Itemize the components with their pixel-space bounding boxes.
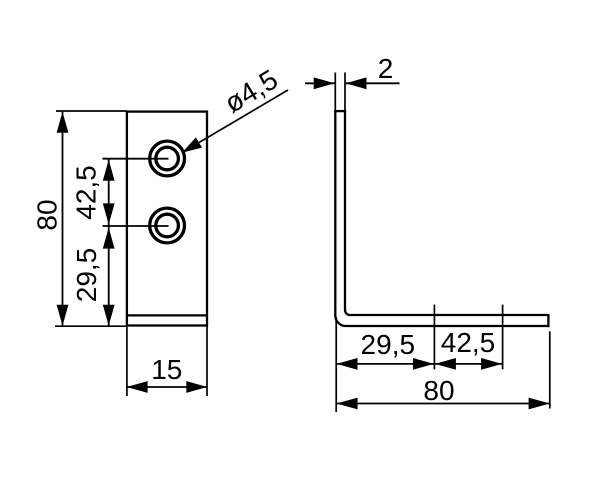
dimension 80 (side) arrow left (337, 398, 358, 410)
dimension 29,5 (side) line (337, 363, 435, 365)
leader arrowhead (182, 137, 202, 152)
hole H1 inner circle (156, 147, 179, 170)
dimension 80 (side) arrow right (529, 398, 550, 410)
tick extension line at 29,5 (side) (433, 305, 435, 370)
dimension 42,5 (side) arrow right (481, 358, 502, 370)
front view: bend tangent line (127, 314, 207, 316)
dimension 80 (side) line (337, 403, 550, 405)
dimension 2 line right part (346, 82, 400, 84)
side view: L profile outer contour (335, 111, 548, 326)
side view: L profile inner contour (345, 111, 548, 315)
extension line top (80 dim) (56, 110, 127, 112)
svg-text:15: 15 (151, 354, 182, 385)
hole H2 outer circle (150, 208, 185, 243)
dimension 15 arrow left (127, 381, 148, 393)
extension line right (80 side dim) (549, 331, 551, 408)
svg-text:80: 80 (423, 375, 454, 406)
dimension 2 arrow pointing left (346, 77, 367, 89)
hole H1 outer circle (150, 141, 185, 176)
dimension 29,5 (front) line (108, 226, 110, 326)
svg-text:2: 2 (378, 53, 394, 84)
hole H2 center line (103, 225, 169, 227)
extension line left (side bottom dims) (335, 317, 337, 412)
dimension 2 line left part (305, 82, 335, 84)
svg-text:42,5: 42,5 (71, 165, 102, 220)
extension line plate left edge down (15 dim) (126, 326, 128, 396)
dimension 29,5 (front) arrow up (103, 228, 115, 249)
svg-text:29,5: 29,5 (71, 248, 102, 303)
dimension 15 arrow right (186, 381, 207, 393)
dimension 42,5 (side) arrow left (435, 358, 456, 370)
hole H2 inner circle (156, 214, 179, 237)
svg-text:29,5: 29,5 (361, 329, 416, 360)
extension line bottom (80 dim) (55, 325, 128, 327)
dimension 80 (front) arrow up (57, 112, 69, 133)
dimension 42,5 (front) arrow down (103, 203, 115, 224)
dimension 42,5 (front) arrow up (103, 160, 115, 181)
svg-text:80: 80 (32, 199, 63, 230)
dimension 29,5 (front) arrow down (103, 305, 115, 326)
dimension 29,5 (side) arrow right (413, 358, 434, 370)
svg-text:ø4,5: ø4,5 (219, 63, 283, 118)
leader line for hole diameter (182, 90, 288, 153)
dimension 42,5 (side) line (434, 363, 502, 365)
side view: right end cap (547, 314, 549, 327)
dimension 80 (front) arrow down (57, 305, 69, 326)
svg-text:42,5: 42,5 (441, 327, 496, 358)
extension lines above plate (2 dim) (334, 73, 336, 111)
hole H1 center line (103, 158, 169, 160)
dimension 80 (front) line (62, 112, 64, 326)
dimension 29,5 (side) arrow left (337, 358, 358, 370)
dimension 42,5 (front) line (108, 159, 110, 226)
extension line plate right edge down (15 dim) (206, 326, 208, 396)
side view: top end cap (334, 110, 346, 112)
dimension 15 line (127, 386, 207, 388)
tick extension line at 42,5 (side) (502, 305, 504, 370)
front view: bracket plate outline (127, 112, 207, 326)
dimension 2 arrow pointing right (314, 77, 335, 89)
